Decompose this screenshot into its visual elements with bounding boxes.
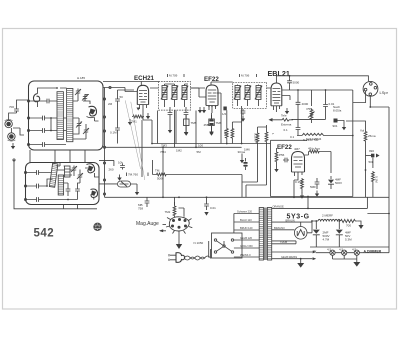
svg-text:LSpr: LSpr	[380, 90, 389, 95]
trimmer C2	[82, 94, 88, 101]
svg-text:0.1M: 0.1M	[110, 131, 117, 135]
wire antenna to coil box	[9, 100, 29, 135]
selector contacts	[214, 239, 233, 253]
trimmer C4	[83, 128, 89, 135]
svg-text:0.22M: 0.22M	[254, 133, 258, 142]
ground (heater CT)	[297, 259, 304, 268]
resistor 1M5	[223, 128, 228, 140]
capacitor (box2 b)	[35, 184, 41, 189]
wires between box1 and box2	[30, 150, 85, 163]
speaker connector Lspr	[363, 81, 378, 96]
ground (EBL21 pin)	[285, 108, 289, 114]
dial cord diagonal 2	[131, 102, 145, 180]
AF section top wire	[271, 139, 308, 141]
wire dial lamp taps GELB-WEISS	[272, 251, 317, 260]
svg-text:BLAU 110: BLAU 110	[240, 218, 252, 222]
bus B+ bottom	[105, 196, 390, 198]
filter cap 2MF	[313, 221, 330, 247]
svg-text:M.706: M.706	[241, 74, 250, 78]
antenna terminal E	[7, 133, 15, 141]
resistor R1 (ECH21 cathode)	[131, 115, 144, 123]
wire under IF2	[242, 125, 267, 197]
ground (IF1 left)	[168, 127, 172, 133]
grid components P56	[274, 148, 284, 172]
wire tone pot	[292, 119, 326, 123]
trimmer C3	[76, 121, 82, 128]
resistor 45 (screen AF)	[308, 147, 321, 153]
resistor 7M2 (eye grid)	[165, 202, 185, 217]
wire 990 down	[372, 158, 374, 169]
svg-text:700: 700	[9, 105, 14, 109]
wire cathode tap BRAUN3	[272, 226, 295, 230]
svg-text:Schwarz 220: Schwarz 220	[237, 210, 253, 214]
IF transformer M.709 box	[159, 82, 191, 111]
svg-text:EBL21: EBL21	[268, 69, 290, 78]
capacitor (IF1 lower right)	[184, 111, 189, 117]
wire box1 to ECH21 grid	[103, 88, 137, 198]
output transformer S.2444 primary	[297, 133, 326, 142]
wire eye feed	[163, 147, 175, 205]
capacitor 600	[290, 126, 300, 140]
ground (7M5)	[184, 130, 188, 136]
svg-text:S2444/5M4: S2444/5M4	[306, 137, 322, 141]
svg-text:7M4: 7M4	[160, 150, 166, 154]
Philips logo	[93, 223, 101, 231]
wire speaker pins down	[353, 91, 389, 197]
wire anode tap	[272, 218, 312, 222]
ground (dial lamp branch)	[117, 175, 121, 181]
wire box2 right to pot	[99, 160, 117, 184]
svg-text:1M5: 1M5	[223, 130, 227, 136]
svg-text:2M: 2M	[108, 102, 113, 106]
capacitor Ca	[41, 116, 47, 121]
power transformer primary winding	[259, 208, 263, 261]
wire resistor pair	[227, 106, 242, 144]
svg-text:0.1M: 0.1M	[295, 180, 302, 184]
tube EBL21	[271, 83, 282, 112]
svg-text:5.3M: 5.3M	[345, 238, 352, 242]
resistor 1M6	[265, 0, 275, 143]
diode arrow (ECH21 cathode)	[137, 108, 140, 111]
dial lamp 3	[352, 248, 359, 256]
capacitor (EF22 cathode)	[204, 113, 214, 129]
wire selector to transformer taps	[234, 214, 260, 258]
arrow (eye left pin)	[159, 229, 166, 232]
svg-text:7M6: 7M6	[216, 121, 222, 125]
wire right bus down	[367, 168, 389, 247]
potentiometer (volume)	[118, 181, 138, 189]
capacitor 0.01	[323, 102, 335, 109]
wire TM bus	[153, 160, 243, 197]
chassis bus bottom right	[310, 246, 389, 248]
svg-text:2 MERF: 2 MERF	[322, 214, 333, 218]
coupling cap 0.1M	[110, 106, 120, 135]
ground (ECH21 cathode)	[146, 113, 150, 119]
resistor 700 (filter)	[341, 219, 358, 227]
tube EF22 AF	[292, 152, 305, 179]
ground (antenna earth)	[11, 143, 15, 149]
svg-text:7M2: 7M2	[165, 210, 171, 214]
terminal column (chassis feedthroughs)	[103, 98, 105, 148]
ground (AF bypass)	[315, 191, 319, 197]
dial lamp 1	[327, 248, 335, 256]
svg-text:1M6: 1M6	[244, 148, 250, 152]
coil L3	[65, 166, 71, 177]
capacitor (box2 d)	[66, 187, 71, 193]
wire HT top tap	[272, 197, 368, 209]
svg-text:260: 260	[109, 168, 114, 172]
resistor 4000	[296, 101, 309, 107]
svg-text:4000: 4000	[302, 102, 309, 106]
svg-text:P56: P56	[279, 153, 285, 157]
svg-text:4.5: 4.5	[352, 248, 357, 252]
wire cord to switch	[209, 241, 212, 259]
svg-text:500V: 500V	[335, 181, 342, 185]
pickup arrow (Tonabnehmer)	[269, 114, 294, 127]
svg-text:ORANGE: ORANGE	[273, 205, 285, 209]
terminal on box1 right	[109, 86, 111, 88]
wires inside box 2	[26, 163, 100, 200]
svg-text:P55: P55	[307, 107, 313, 111]
wire 0.01 to bus	[325, 90, 327, 119]
svg-text:7M.760: 7M.760	[128, 173, 138, 177]
junction dots box1	[50, 117, 52, 119]
capacitor Cc	[41, 142, 47, 147]
ground (IF2)	[241, 116, 245, 122]
dial cord diagonal	[125, 100, 140, 169]
wire AF plate	[305, 152, 332, 174]
svg-text:8.05/a: 8.05/a	[333, 109, 342, 113]
ground (IF1 right)	[184, 129, 188, 135]
wire grid column	[118, 90, 135, 144]
svg-text:0.1M: 0.1M	[375, 176, 379, 183]
ground (EF22 cathode R)	[209, 129, 213, 135]
wire rectifier output	[307, 221, 318, 233]
svg-text:TRUB: TRUB	[280, 240, 287, 244]
svg-text:M.709: M.709	[169, 74, 178, 78]
left bus wire	[14, 160, 97, 209]
rectifier tube 5Y3-G	[294, 222, 307, 239]
svg-text:Externa: Externa	[281, 123, 292, 127]
svg-text:4.5: 4.5	[339, 248, 344, 252]
IF2 coil B	[244, 86, 251, 100]
wire transformer to speaker line	[326, 135, 353, 137]
terminal circles on box1	[27, 100, 29, 102]
svg-text:25ma: 25ma	[368, 134, 376, 138]
svg-text:EF22: EF22	[277, 144, 292, 151]
wire box2 bottom stubs	[64, 205, 78, 209]
rotor (box2 top right)	[87, 164, 95, 173]
capacitor 7M5	[184, 115, 197, 130]
power transformer secondary winding	[267, 208, 271, 261]
resistor TM 5000	[155, 169, 168, 181]
rotor (box2 bottom right)	[91, 189, 98, 197]
wire EBL21 plate branch	[282, 76, 353, 103]
bandswitch ladder (box2)	[49, 163, 58, 187]
svg-text:ECH21: ECH21	[134, 75, 155, 82]
svg-text:4V: 4V	[313, 249, 316, 253]
wire heater taps TRUB	[272, 240, 296, 244]
oscillator coil ladder 1	[57, 92, 63, 140]
node (speaker return)	[369, 106, 371, 108]
svg-text:Mag.Auge: Mag.Auge	[136, 221, 159, 227]
voltage selector box	[212, 233, 243, 258]
terminal circles mid column	[103, 162, 105, 164]
capacitor MB 758	[138, 197, 149, 210]
capacitor 10k	[118, 161, 125, 170]
wire AF tube to bus	[294, 178, 298, 197]
svg-text:5M: 5M	[197, 150, 202, 154]
svg-text:10k: 10k	[118, 161, 123, 165]
svg-text:GRAU 150: GRAU 150	[240, 244, 253, 248]
svg-text:WEISS 0: WEISS 0	[240, 253, 251, 257]
AF section bottom wire	[271, 196, 353, 198]
capacitor 7M6	[209, 115, 222, 130]
capacitor 0.01 (mains)	[204, 197, 216, 215]
wire verticals to bus	[158, 111, 197, 148]
capacitor 4MF500V	[328, 176, 342, 189]
svg-text:0.01: 0.01	[210, 206, 216, 210]
capacitor (box2 e)	[75, 187, 80, 193]
label 7M.760	[127, 173, 149, 177]
wire EBL21 top cap to bus	[275, 76, 277, 83]
filter choke	[318, 219, 340, 221]
antenna coil L1 (hook)	[33, 94, 39, 102]
svg-text:0.1: 0.1	[284, 128, 289, 132]
wire ECH21 to bus	[142, 112, 152, 177]
svg-text:4.5: 4.5	[327, 248, 332, 252]
svg-text:45/a Apa: 45/a Apa	[308, 147, 320, 151]
capacitor Cb	[41, 128, 47, 133]
resistor 0.1M (AF cathode)	[295, 178, 303, 193]
capacitor (box2 a)	[35, 170, 41, 175]
ground (EF22 cathode)	[198, 107, 202, 113]
decoupling cap (30ma branch)	[240, 154, 248, 171]
power transformer core	[265, 208, 266, 261]
IF1 internal wires	[165, 84, 207, 107]
capacitor (antenna series)	[9, 105, 19, 113]
svg-text:50: 50	[120, 95, 124, 99]
wire top bus to speaker	[276, 76, 368, 82]
svg-text:758: 758	[138, 207, 143, 211]
ground (magic eye)	[176, 231, 182, 249]
svg-text:TM.: TM.	[155, 169, 160, 173]
bus AGC lower	[105, 146, 242, 148]
svg-text:H.185: H.185	[77, 76, 85, 80]
ground arrow (filter end)	[357, 221, 363, 229]
svg-text:901: 901	[333, 124, 338, 128]
coupling cap 2M	[108, 90, 123, 106]
svg-text:A.DIMMER: A.DIMMER	[364, 250, 382, 254]
svg-text:5MF: 5MF	[310, 185, 316, 189]
IF1 coil B	[171, 86, 178, 100]
svg-text:1/2: 1/2	[222, 112, 227, 116]
svg-text:542: 542	[34, 228, 55, 240]
svg-text:BRAUN3: BRAUN3	[274, 226, 285, 230]
wire box1 top bus	[103, 81, 159, 83]
svg-text:45B: 45B	[204, 123, 209, 127]
ground (AF cathode)	[300, 193, 304, 199]
pot 990 output arrow	[366, 149, 380, 164]
potentiometer P55	[307, 107, 315, 121]
wire lamp bus	[316, 247, 389, 262]
IF2 internal wires	[211, 82, 271, 144]
capacitor (IF1 lower left)	[168, 111, 173, 117]
wire plate load column	[298, 90, 312, 136]
wire IF1 couplings	[150, 88, 205, 129]
capacitor (box2 c)	[35, 197, 41, 202]
coil ladder (box2)	[58, 175, 63, 195]
trimmer C7	[71, 166, 77, 173]
mains cord twisted	[185, 256, 211, 260]
svg-text:5000: 5000	[293, 81, 300, 85]
terminal on left bus	[13, 159, 15, 161]
resistor 0.1M right	[372, 171, 379, 183]
svg-text:0.1: 0.1	[290, 135, 295, 139]
ground (7M6)	[209, 130, 213, 136]
magic eye tube	[166, 217, 192, 234]
tuner coil box H.185	[29, 81, 104, 150]
jack 901	[333, 119, 338, 129]
capacitor grid AF	[283, 158, 289, 163]
svg-text:BRUN 140: BRUN 140	[240, 226, 253, 230]
small cap (IF2 bottom)	[241, 109, 246, 115]
svg-text:N 1050: N 1050	[194, 241, 204, 245]
mains plug	[169, 253, 185, 263]
resistor Vol	[360, 129, 376, 143]
capacitor 5000 (EBL21 plate)	[287, 79, 299, 85]
IF1 coil A	[161, 86, 168, 100]
svg-text:GELB 126: GELB 126	[240, 236, 253, 240]
svg-text:GELB-WEISS: GELB-WEISS	[281, 255, 297, 259]
trimmer C8	[77, 173, 83, 180]
IF2 coil C	[255, 86, 262, 100]
svg-text:Tele: Tele	[281, 114, 287, 118]
trimmer C1	[75, 89, 81, 96]
ground (volume pot)	[135, 189, 139, 195]
svg-text:700: 700	[346, 224, 351, 228]
capacitor Cd	[45, 99, 51, 104]
capacitor 5MF25V	[310, 178, 319, 189]
ground (EF22 grid)	[202, 107, 206, 113]
ground (ECH21 grid)	[128, 119, 132, 125]
svg-text:990: 990	[369, 149, 374, 153]
svg-text:100: 100	[198, 143, 203, 147]
terminal circles on box2	[24, 171, 26, 173]
oscillator coil ladder 2	[67, 89, 73, 142]
ground (lamps)	[353, 262, 360, 267]
svg-text:7M5: 7M5	[191, 121, 197, 125]
svg-text:4.7M: 4.7M	[323, 238, 330, 242]
filter cap 4MF	[336, 221, 352, 247]
antenna terminal A	[5, 120, 13, 128]
svg-text:BRAUN: BRAUN	[286, 218, 295, 222]
resistor 1M4	[231, 128, 234, 140]
junction dots box2	[46, 185, 48, 187]
resistor 7M6b	[254, 132, 259, 144]
svg-text:Vol: Vol	[360, 129, 365, 133]
dial lamp 2	[339, 248, 347, 256]
svg-text:1M2: 1M2	[176, 149, 182, 153]
tube EF22	[206, 82, 218, 113]
IF2 coil A	[234, 86, 241, 100]
ground (after jack)	[338, 121, 347, 131]
wire vol column	[346, 121, 366, 197]
wires inside box 1	[29, 88, 99, 145]
tube ECH21	[137, 82, 148, 113]
svg-text:4M7: 4M7	[294, 147, 300, 151]
tuner coil box 2	[26, 163, 100, 205]
IF transformer M.706 box	[233, 82, 267, 108]
bus AVC (mid)	[152, 143, 271, 145]
AF section left wire	[270, 140, 272, 196]
jack 102	[222, 107, 227, 117]
tuning rotor	[87, 106, 97, 117]
junction dots (buses)	[162, 196, 164, 198]
svg-text:7M3: 7M3	[161, 143, 167, 147]
